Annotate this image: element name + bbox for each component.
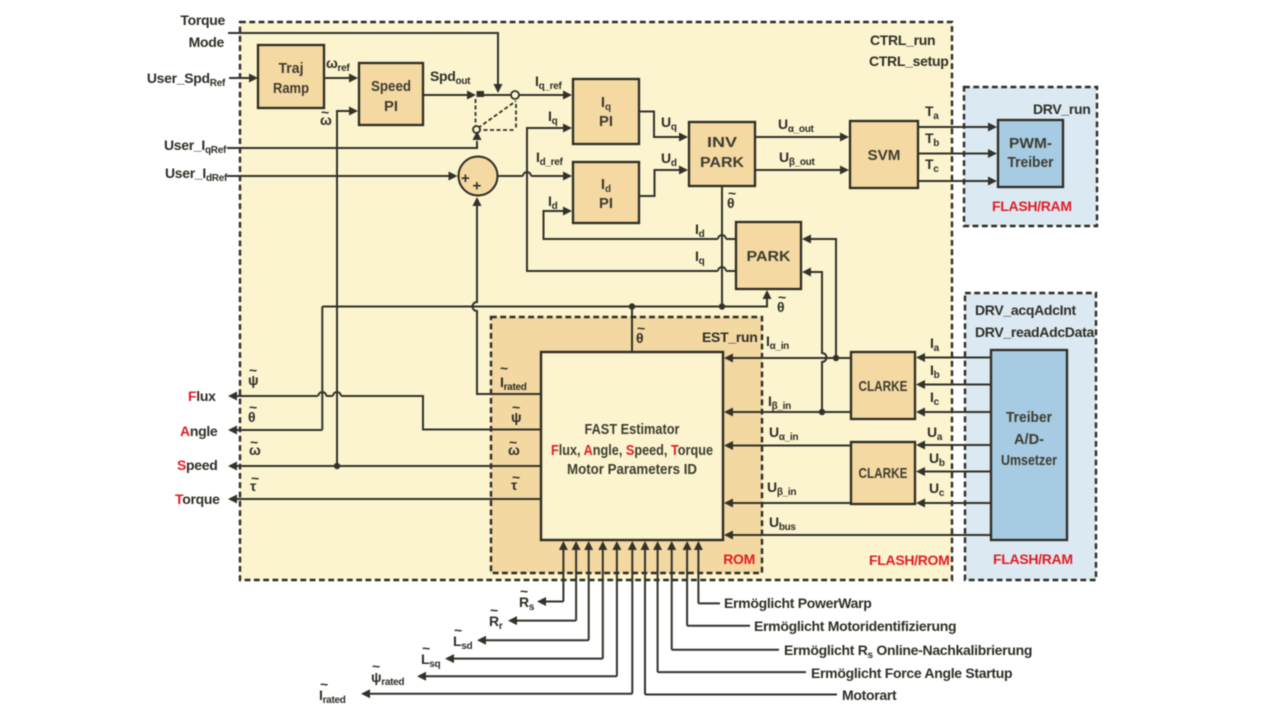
svg-text:~: ~ xyxy=(372,658,380,674)
svg-text:Angle: Angle xyxy=(180,423,218,439)
svg-text:~: ~ xyxy=(490,602,498,618)
svg-text:Motorart: Motorart xyxy=(842,687,897,703)
svg-text:~: ~ xyxy=(250,434,258,450)
svg-text:CTRL_setup: CTRL_setup xyxy=(869,53,948,69)
svg-text:FLASH/RAM: FLASH/RAM xyxy=(993,551,1073,567)
svg-text:Motor Parameters ID: Motor Parameters ID xyxy=(567,461,697,478)
svg-text:DRV_run: DRV_run xyxy=(1033,101,1091,117)
svg-text:Flux, Angle, Speed, Torque: Flux, Angle, Speed, Torque xyxy=(551,442,713,459)
svg-text:~: ~ xyxy=(422,640,430,656)
svg-text:Torque: Torque xyxy=(180,12,225,28)
svg-text:SVM: SVM xyxy=(868,147,901,164)
svg-text:CTRL_run: CTRL_run xyxy=(870,32,935,48)
svg-text:PWM-: PWM- xyxy=(1009,135,1052,152)
svg-text:PI: PI xyxy=(599,195,613,212)
svg-text:Ermöglicht Motoridentifizierun: Ermöglicht Motoridentifizierung xyxy=(754,618,956,634)
svg-text:+: + xyxy=(461,170,470,187)
svg-text:Umsetzer: Umsetzer xyxy=(1001,452,1057,469)
svg-text:~: ~ xyxy=(500,360,508,376)
svg-text:~: ~ xyxy=(249,362,257,378)
svg-text:~: ~ xyxy=(637,320,645,336)
svg-text:FLASH/RAM: FLASH/RAM xyxy=(992,198,1072,214)
svg-text:PI: PI xyxy=(599,113,613,130)
svg-text:DRV_readAdcData: DRV_readAdcData xyxy=(975,324,1094,340)
svg-text:User_IdRef: User_IdRef xyxy=(165,165,228,184)
svg-text:~: ~ xyxy=(320,676,328,692)
svg-text:CLARKE: CLARKE xyxy=(859,378,908,395)
svg-text:ROM: ROM xyxy=(723,551,755,567)
svg-text:Speed: Speed xyxy=(371,78,411,95)
svg-text:DRV_acqAdcInt: DRV_acqAdcInt xyxy=(975,302,1077,318)
svg-text:Ermöglicht Force Angle Startup: Ermöglicht Force Angle Startup xyxy=(811,665,1012,681)
svg-text:User_IqRef: User_IqRef xyxy=(164,137,227,156)
svg-text:FAST Estimator: FAST Estimator xyxy=(585,421,680,438)
svg-text:Torque: Torque xyxy=(175,491,220,507)
svg-text:FLASH/ROM: FLASH/ROM xyxy=(869,552,950,568)
svg-text:~: ~ xyxy=(249,399,257,415)
svg-text:~: ~ xyxy=(520,583,528,599)
svg-text:PARK: PARK xyxy=(747,248,791,265)
svg-text:PARK: PARK xyxy=(700,154,744,171)
svg-text:Speed: Speed xyxy=(177,457,218,473)
svg-text:Mode: Mode xyxy=(189,34,225,50)
svg-text:Ermöglicht Rs Online-Nachkalib: Ermöglicht Rs Online-Nachkalibrierung xyxy=(784,642,1032,661)
svg-text:~: ~ xyxy=(321,104,329,120)
svg-text:~: ~ xyxy=(512,469,520,485)
svg-text:~: ~ xyxy=(512,399,520,415)
svg-text:Ermöglicht PowerWarp: Ermöglicht PowerWarp xyxy=(724,595,872,611)
svg-text:~: ~ xyxy=(454,622,462,638)
svg-text:INV: INV xyxy=(707,134,737,151)
svg-text:~: ~ xyxy=(509,434,517,450)
svg-text:~: ~ xyxy=(778,289,786,305)
svg-text:Flux: Flux xyxy=(188,388,216,404)
svg-text:Traj: Traj xyxy=(279,60,304,77)
svg-text:A/D-: A/D- xyxy=(1014,431,1044,448)
svg-text:Treiber: Treiber xyxy=(1008,154,1054,171)
svg-text:User_SpdRef: User_SpdRef xyxy=(147,70,226,89)
svg-text:PI: PI xyxy=(384,98,398,115)
svg-text:+: + xyxy=(473,178,482,195)
svg-text:Treiber: Treiber xyxy=(1006,409,1052,426)
svg-text:EST_run: EST_run xyxy=(702,329,757,345)
svg-text:CLARKE: CLARKE xyxy=(859,465,908,482)
svg-text:~: ~ xyxy=(251,470,259,486)
svg-text:~: ~ xyxy=(728,185,736,201)
svg-text:Ramp: Ramp xyxy=(273,80,309,97)
